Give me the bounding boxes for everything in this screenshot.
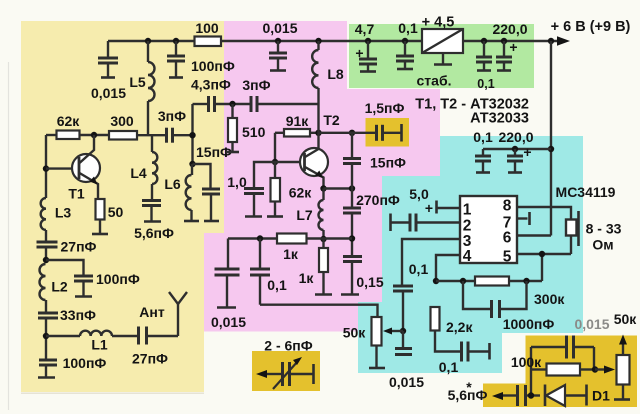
svg-text:Ом: Ом [592,237,613,253]
svg-text:4,3пФ: 4,3пФ [191,77,231,93]
svg-text:33пФ: 33пФ [60,307,96,323]
svg-text:300к: 300к [534,291,565,307]
svg-text:MC34119: MC34119 [556,184,616,200]
svg-text:5,0: 5,0 [409,186,429,202]
svg-text:0,015: 0,015 [91,85,126,101]
svg-text:+: + [425,200,433,216]
svg-text:1,5пФ: 1,5пФ [365,100,405,116]
svg-text:62к: 62к [57,113,81,129]
svg-text:91к: 91к [286,113,310,129]
svg-text:Ант: Ант [139,304,165,320]
svg-text:+ 6 В (+9 В): + 6 В (+9 В) [551,19,631,35]
svg-text:0,015: 0,015 [211,314,246,330]
svg-text:L4: L4 [130,165,147,181]
svg-text:L7: L7 [296,207,313,223]
svg-text:1000пФ: 1000пФ [503,316,555,332]
svg-text:8: 8 [503,198,512,215]
svg-text:0,015: 0,015 [574,316,609,332]
svg-text:0,1: 0,1 [409,261,429,277]
svg-text:D1: D1 [592,388,610,404]
svg-text:510: 510 [242,124,266,140]
svg-text:0,15: 0,15 [356,274,383,290]
svg-text:+ 4,5: + 4,5 [422,15,455,31]
svg-text:3пФ: 3пФ [242,77,270,93]
svg-text:220,0: 220,0 [498,129,533,145]
svg-text:L5: L5 [129,74,146,90]
svg-text:1,0: 1,0 [227,174,247,190]
svg-text:АТ32033: АТ32033 [470,111,529,127]
svg-text:2,2к: 2,2к [446,319,473,335]
svg-text:3пФ: 3пФ [158,108,186,124]
svg-text:1: 1 [463,202,472,219]
svg-text:0,1: 0,1 [398,20,418,36]
svg-text:6: 6 [503,230,512,247]
svg-text:62к: 62к [289,185,313,201]
svg-text:+: + [523,144,531,160]
svg-text:L2: L2 [51,279,68,295]
svg-text:220,0: 220,0 [492,21,527,37]
svg-text:0,015: 0,015 [389,374,424,390]
svg-text:0,1: 0,1 [477,77,494,91]
svg-text:50: 50 [108,204,124,220]
svg-text:0,1: 0,1 [439,359,459,375]
svg-text:Т1: Т1 [68,186,85,202]
svg-text:L1: L1 [91,337,108,353]
svg-text:L8: L8 [327,66,344,82]
svg-text:0,1: 0,1 [473,129,493,145]
svg-text:100пФ: 100пФ [96,271,140,287]
svg-text:5,6пФ: 5,6пФ [134,225,174,241]
svg-text:стаб.: стаб. [417,73,452,89]
svg-text:4,7: 4,7 [355,21,375,37]
svg-text:L6: L6 [164,176,181,192]
svg-text:100к: 100к [511,354,542,370]
svg-text:100пФ: 100пФ [63,355,107,371]
svg-text:300: 300 [110,113,134,129]
svg-text:1к: 1к [299,270,315,286]
svg-text:L3: L3 [55,205,72,221]
svg-text:100пФ: 100пФ [191,58,235,74]
svg-text:Т2: Т2 [323,112,340,128]
svg-text:270пФ: 270пФ [356,192,400,208]
svg-text:8 - 33: 8 - 33 [586,221,622,237]
svg-text:1к: 1к [283,246,299,262]
svg-text:50к: 50к [343,325,367,341]
svg-text:2: 2 [463,218,472,235]
svg-text:0,1: 0,1 [267,277,287,293]
svg-text:+: + [509,39,517,55]
svg-text:*: * [466,379,472,395]
svg-text:27пФ: 27пФ [61,239,97,255]
svg-text:50к: 50к [614,311,638,327]
svg-text:4: 4 [463,248,472,265]
svg-text:27пФ: 27пФ [132,351,168,367]
svg-text:+: + [355,45,363,61]
svg-text:0,015: 0,015 [262,20,297,36]
svg-text:100: 100 [195,20,219,36]
svg-text:2 - 6пФ: 2 - 6пФ [264,338,312,354]
svg-text:15пФ: 15пФ [370,155,406,171]
svg-text:5: 5 [503,249,512,266]
